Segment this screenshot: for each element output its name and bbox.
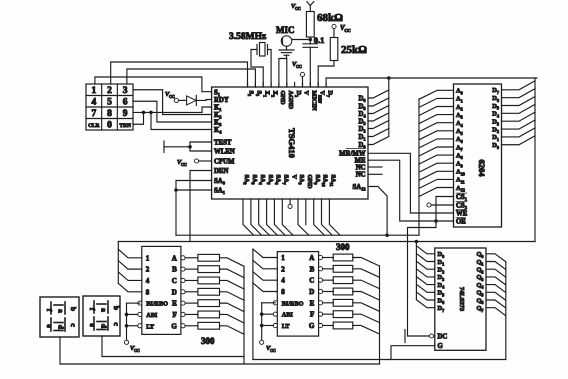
resistor segment D driver1 — [185, 291, 198, 293]
svg-text:WE: WE — [456, 210, 468, 217]
IC U2 6264 SRAM body — [454, 84, 502, 227]
wire 6264 D7 feather — [502, 81, 536, 90]
wire latch Q7 feather — [486, 308, 506, 316]
wire SA4 to address bus — [259, 199, 270, 235]
wire SA3 to address bus — [251, 199, 262, 235]
wire driver1 input 1 feather — [118, 249, 142, 257]
wire A10 feather — [419, 171, 454, 180]
svg-text:D: D — [172, 288, 177, 296]
address bus vertical to 6264 — [418, 99, 420, 235]
svg-text:A: A — [309, 254, 314, 262]
node SA12 on address bus — [385, 233, 389, 237]
resistor segment A driver1 — [185, 257, 198, 259]
svg-text:b: b — [112, 306, 121, 310]
wire segment F driver1 feather — [220, 314, 245, 323]
wire SA11 to address bus — [329, 199, 340, 235]
wire A8 feather — [419, 155, 454, 164]
wire SA12 to address bus — [368, 187, 387, 236]
svg-text:DC: DC — [438, 333, 448, 340]
svg-text:300: 300 — [201, 336, 215, 346]
wire MR/MW to WE — [368, 153, 454, 213]
svg-text:RDY: RDY — [214, 97, 229, 104]
wire driver2 input 1 feather — [253, 249, 277, 258]
wire driver1 input 4 feather — [118, 272, 142, 281]
svg-text:CC: CC — [169, 94, 175, 99]
wire BI/RBO chain to Vcc — [127, 302, 140, 304]
wire SA1 join — [176, 189, 212, 191]
svg-text:CC: CC — [270, 348, 276, 353]
resistor segment E driver1 — [185, 302, 198, 304]
wire A6 feather — [419, 139, 454, 148]
svg-text:V: V — [303, 91, 310, 96]
wire segment E driver2 feather — [353, 303, 380, 312]
capacitor C1 0.1 — [303, 43, 318, 45]
svg-text:B: B — [172, 266, 177, 274]
TSG410 top pin stubs — [247, 83, 249, 88]
wire 6264 D1 feather — [502, 128, 536, 137]
wire latch Q5 feather — [486, 292, 506, 300]
svg-text:2: 2 — [107, 86, 112, 96]
power pin V terminal — [289, 199, 291, 204]
svg-text:9: 9 — [123, 109, 128, 119]
wire A7 feather — [419, 147, 454, 156]
wire A9 feather — [419, 163, 454, 172]
svg-text:0: 0 — [107, 121, 112, 131]
power Vcc at 25k resistor — [332, 24, 336, 28]
svg-text:G: G — [438, 343, 444, 350]
wire ME to OE — [368, 160, 454, 221]
power Vcc terminal driver1 — [124, 340, 128, 344]
wire SA0 down — [176, 181, 212, 236]
wire latch Q2 feather — [486, 269, 506, 277]
wire latch D4 feather — [416, 277, 434, 285]
svg-text:CC: CC — [181, 162, 187, 167]
node row3/row4 junction — [142, 111, 146, 115]
svg-text:8: 8 — [281, 288, 285, 296]
wire latch D2 feather — [416, 261, 434, 269]
wire driver2 input 4 feather — [253, 272, 277, 281]
wire segment D driver1 feather — [220, 292, 245, 301]
resistor segment C driver2 — [323, 279, 334, 281]
svg-text:4: 4 — [146, 277, 150, 285]
latch D feather bus vertical — [415, 242, 417, 300]
wire segment A driver2 feather — [353, 258, 380, 267]
svg-text:GND: GND — [279, 91, 286, 105]
driver1 segment bus vertical — [243, 266, 245, 364]
wire keypad row 1 to K2 — [133, 90, 212, 115]
wire latch Q3 feather — [486, 277, 506, 285]
power Vcc terminal driver2 — [260, 340, 264, 344]
svg-text:8: 8 — [146, 288, 150, 296]
wire segment E driver1 feather — [220, 303, 245, 312]
wire segment G driver1 feather — [220, 326, 245, 335]
svg-text:2: 2 — [146, 266, 150, 274]
resistor segment D driver2 — [323, 290, 334, 292]
wire 6264 D4 feather — [502, 104, 536, 113]
node SA1 junction — [174, 188, 178, 192]
wire MIC output to node — [292, 39, 311, 41]
wire 68k to node — [309, 37, 311, 44]
resistor segment G driver1 — [185, 325, 198, 327]
wire SA6 to address bus — [274, 199, 285, 235]
svg-text:2: 2 — [281, 265, 285, 273]
svg-text:b: b — [69, 307, 78, 311]
svg-text:ABI: ABI — [282, 312, 294, 319]
svg-text:F: F — [173, 311, 177, 319]
wire keypad column 1 to S1 — [95, 77, 212, 92]
terminal bar on DC wire — [404, 330, 406, 343]
data bus vertical — [388, 78, 390, 137]
driver1 input bus vertical — [117, 242, 119, 284]
svg-text:D: D — [309, 288, 314, 296]
terminal bar at TEST — [163, 141, 165, 153]
wire A4 feather — [419, 123, 454, 132]
wire cap to MICIN pin — [309, 47, 311, 87]
node latch D feather junction — [415, 240, 419, 244]
svg-text:1: 1 — [146, 254, 150, 262]
wire segment B driver2 feather — [353, 269, 380, 278]
wire latch Q4 feather — [486, 285, 506, 293]
wire DEN to bus — [190, 171, 212, 242]
wire crystal right lead to X2 — [268, 50, 272, 88]
svg-text:NC: NC — [356, 172, 366, 179]
wire keypad row 3 to K1 — [133, 107, 212, 112]
svg-text:E: E — [310, 299, 315, 307]
svg-text:CC: CC — [344, 28, 350, 33]
node TEST/WLEN junction — [188, 145, 192, 149]
wire SA5 to address bus — [267, 199, 278, 235]
wire segment A driver1 feather — [220, 258, 245, 267]
svg-text:BI/RBO: BI/RBO — [146, 301, 168, 308]
node ME/OE/CS1 junction — [434, 219, 438, 223]
svg-text:F: F — [310, 311, 314, 319]
svg-text:V: V — [290, 175, 297, 180]
svg-text:TSG410: TSG410 — [287, 128, 297, 158]
wire segment D driver2 feather — [353, 291, 380, 300]
svg-text:a: a — [100, 308, 109, 312]
svg-text:a: a — [57, 309, 66, 313]
wire junction to DC of latch — [408, 221, 437, 336]
svg-text:BI/RBO: BI/RBO — [282, 300, 304, 307]
wire 6264 D3 feather — [502, 112, 536, 121]
driver2 input bus vertical — [252, 249, 254, 360]
svg-text:LT: LT — [282, 323, 291, 330]
Q bus vertical — [505, 262, 507, 360]
wire latch D1 feather — [416, 254, 434, 262]
svg-text:CC: CC — [295, 6, 301, 11]
resistor segment G driver2 — [323, 324, 334, 326]
wire segment G driver2 feather — [353, 325, 380, 334]
resistor R1 68k — [306, 12, 314, 38]
svg-text:TEST: TEST — [214, 139, 232, 146]
wire driver1 input 8 feather — [118, 283, 142, 292]
wire latch D0 feather — [416, 246, 434, 254]
wire A12 feather — [419, 188, 454, 197]
svg-text:300: 300 — [336, 242, 350, 252]
svg-text:4: 4 — [281, 277, 285, 285]
wire 25k to VREF pin — [318, 61, 334, 88]
display DS1 seven-segment — [40, 297, 79, 337]
wire SA7 to address bus — [282, 199, 293, 235]
resistor segment F driver2 — [323, 313, 334, 315]
wire segment C driver2 feather — [353, 280, 380, 289]
svg-text:CPUM: CPUM — [214, 158, 235, 165]
svg-text:C: C — [309, 277, 314, 285]
svg-text:4: 4 — [91, 98, 96, 108]
wire A2 feather — [419, 107, 454, 116]
svg-text:CC: CC — [296, 64, 302, 69]
IC U5 display driver 300 body — [277, 252, 318, 337]
svg-text:ABI: ABI — [146, 312, 158, 319]
wire CS1 to junction — [436, 197, 454, 222]
wire driver1 input 2 feather — [118, 261, 142, 270]
ground under MIC — [286, 46, 288, 50]
resistor segment E driver2 — [323, 302, 334, 304]
node row3 to K4 junction — [149, 111, 153, 115]
svg-text:MIC: MIC — [276, 25, 295, 35]
resistor segment B driver2 — [323, 268, 334, 270]
svg-text:3: 3 — [123, 86, 128, 96]
wire A5 feather — [419, 131, 454, 140]
svg-text:TRN: TRN — [119, 123, 130, 129]
wire GND pin to ground — [279, 59, 287, 88]
wire diode to RDY pin — [196, 99, 211, 102]
wire display DS1 to segment line — [59, 337, 61, 364]
display DS2 seven-segment — [83, 296, 120, 336]
resistor segment C driver1 — [185, 279, 198, 281]
crystal Y1 — [256, 45, 258, 55]
svg-text:G: G — [309, 322, 315, 330]
wire G to Q-bus line — [391, 346, 435, 360]
bus line right vertical to data bus top — [534, 78, 536, 242]
svg-text:DEN: DEN — [214, 168, 228, 175]
keypad 4x3 matrix — [86, 84, 133, 130]
wire SA2 to address bus — [243, 199, 254, 235]
wire segment C driver1 feather — [220, 280, 245, 289]
address bus horizontal — [176, 234, 419, 236]
IC U1 TSG410 body — [212, 87, 368, 199]
resistor segment A driver2 — [323, 257, 334, 259]
wire A1 feather — [419, 98, 454, 107]
svg-text:0.1: 0.1 — [314, 35, 325, 45]
diode D1 to RDY — [179, 99, 187, 101]
wire display DS2 to driver1 segment bus — [102, 336, 244, 357]
microphone MIC — [281, 36, 292, 47]
svg-text:CLR: CLR — [88, 123, 99, 129]
wire latch D7 feather — [416, 300, 434, 308]
svg-text:NC: NC — [356, 164, 366, 171]
wire latch Q6 feather — [486, 300, 506, 308]
wire keypad column 2 to S2 — [111, 62, 248, 87]
svg-text:MICIN: MICIN — [311, 91, 318, 111]
wire crystal left lead to X1 — [251, 50, 263, 88]
segment bus line display1/driver2 — [60, 363, 380, 365]
wire segment F driver2 feather — [353, 314, 380, 323]
svg-text:LT: LT — [146, 323, 155, 330]
wire keypad column 3 to S3 — [127, 69, 256, 87]
wire keypad row 4 up to row3 line — [133, 112, 144, 124]
svg-text:E: E — [172, 300, 177, 308]
svg-text:CC: CC — [134, 348, 140, 353]
svg-text:7: 7 — [91, 109, 96, 119]
wire keypad row 2 to K3 — [133, 101, 212, 122]
svg-text:OE: OE — [456, 218, 466, 225]
resistor R2 25k — [333, 29, 335, 38]
svg-text:C: C — [172, 277, 177, 285]
svg-text:B: B — [310, 265, 315, 273]
svg-text:1: 1 — [281, 254, 285, 262]
svg-text:WLEN: WLEN — [214, 148, 235, 155]
resistor segment B driver1 — [185, 268, 198, 270]
wire driver2 BI/RBO chain to Vcc — [262, 302, 276, 304]
resistor segment F driver1 — [185, 313, 198, 315]
wire SA10 to address bus — [322, 199, 333, 235]
ground pin GND stub — [305, 199, 307, 225]
node mic/cap junction — [309, 38, 313, 42]
svg-text:G: G — [171, 322, 177, 330]
svg-text:3.58MHz: 3.58MHz — [229, 32, 267, 42]
svg-text:AGND: AGND — [287, 91, 294, 110]
wire 6264 D2 feather — [502, 120, 536, 129]
wire SA8 to address bus — [298, 199, 309, 235]
svg-text:5: 5 — [107, 98, 112, 108]
NC pin stubs — [368, 166, 382, 168]
svg-text:6: 6 — [123, 98, 128, 108]
wire driver2 input 8 feather — [253, 283, 277, 292]
wire segment B driver1 feather — [220, 269, 245, 278]
wire latch D6 feather — [416, 292, 434, 300]
IC U3 74LS373 body — [435, 248, 486, 350]
svg-text:6264: 6264 — [477, 160, 487, 178]
wire A0 feather — [419, 90, 454, 99]
wire to TEST and WLEN pins — [190, 142, 212, 147]
driver2 segment bus vertical — [379, 266, 381, 364]
terminal circle at CS2 — [427, 203, 431, 207]
svg-text:A: A — [172, 254, 177, 262]
wire latch D3 feather — [416, 269, 434, 277]
wire A3 feather — [419, 115, 454, 124]
Q bus bottom line to driver2 inputs — [253, 359, 506, 361]
wire A11 feather — [419, 179, 454, 188]
wire bar to TEST/WLEN — [164, 146, 190, 148]
svg-text:25kΩ: 25kΩ — [341, 44, 367, 56]
wire D7 top pin to data bus — [326, 78, 537, 87]
bus line data/DEN horizontal — [118, 241, 535, 243]
terminal circle at DC — [429, 334, 433, 338]
wire 6264 D6 feather — [502, 89, 536, 98]
wire latch Q0 feather — [486, 254, 506, 262]
wire driver2 input 2 feather — [253, 260, 277, 269]
wire 6264 D5 feather — [502, 97, 536, 106]
TSG410 D outputs to data bus — [368, 90, 389, 98]
wire latch D5 feather — [416, 284, 434, 292]
IC U4 display driver 300 body — [142, 246, 181, 334]
svg-text:GND: GND — [306, 175, 313, 189]
svg-text:8: 8 — [107, 109, 112, 119]
wire latch Q1 feather — [486, 262, 506, 270]
svg-text:68kΩ: 68kΩ — [317, 12, 343, 24]
svg-text:1: 1 — [91, 86, 96, 96]
node data bus top — [387, 76, 391, 80]
wire 6264 D0 feather — [502, 136, 536, 145]
wire SA9 to address bus — [314, 199, 325, 235]
wire node to K4 — [151, 112, 212, 129]
svg-text:74LS373: 74LS373 — [458, 287, 465, 312]
